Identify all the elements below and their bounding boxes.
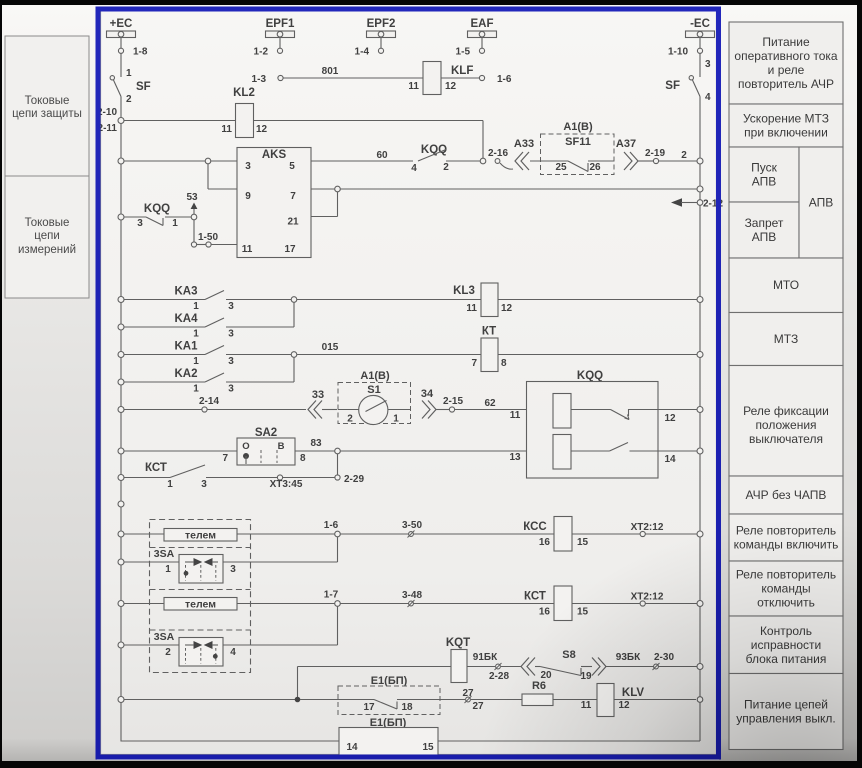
svg-text:КСТ: КСТ bbox=[145, 462, 167, 474]
svg-text:83: 83 bbox=[310, 438, 322, 449]
svg-text:11: 11 bbox=[510, 410, 521, 421]
svg-text:команды: команды bbox=[761, 582, 810, 596]
connector 33 bbox=[308, 389, 337, 419]
svg-text:EPF1: EPF1 bbox=[266, 18, 295, 30]
box телем 1 bbox=[164, 529, 237, 542]
svg-text:SF: SF bbox=[665, 80, 680, 92]
blue frame bbox=[98, 9, 719, 757]
block E1(БП) bottom bbox=[339, 717, 438, 755]
switch SA2 bbox=[222, 427, 306, 465]
node 3-48 bbox=[340, 590, 697, 607]
node AKS row right bus bbox=[697, 158, 703, 164]
arrow 53 up bbox=[186, 192, 198, 214]
wire E1 box to right bbox=[438, 703, 700, 742]
svg-text:блока питания: блока питания bbox=[746, 652, 827, 666]
contact KA1 bbox=[118, 341, 339, 368]
svg-text:измерений: измерений bbox=[18, 244, 76, 256]
node 1-10 bbox=[668, 38, 703, 58]
left bus wire bbox=[120, 97, 122, 742]
svg-text:-EC: -EC bbox=[690, 18, 710, 30]
wire bus to телем2 bbox=[118, 601, 164, 607]
wire телем1 to 1-6 bbox=[237, 533, 335, 535]
wire KL2 to corner bbox=[254, 120, 484, 122]
svg-text:12: 12 bbox=[501, 303, 513, 314]
svg-text:5: 5 bbox=[289, 161, 295, 172]
wire corner down to AKS row bbox=[482, 121, 484, 162]
svg-text:13: 13 bbox=[509, 452, 521, 463]
svg-text:SF: SF bbox=[136, 81, 151, 93]
node pin7 junction bbox=[335, 186, 341, 192]
svg-text:11: 11 bbox=[466, 303, 477, 314]
relay block KQQ bbox=[527, 370, 659, 478]
node 1-5 bbox=[456, 38, 485, 58]
svg-text:16: 16 bbox=[539, 607, 551, 618]
svg-text:выключателя: выключателя bbox=[749, 432, 823, 446]
wire KA1 to KT bbox=[297, 354, 482, 356]
annotation: Запрет АПВ bbox=[729, 202, 799, 258]
relay coil KT bbox=[471, 326, 507, 372]
node XT3:45 bbox=[270, 475, 335, 490]
node KQT bus bbox=[697, 664, 703, 670]
wire 83 to KQQ box bbox=[340, 450, 527, 452]
svg-text:7: 7 bbox=[290, 191, 296, 202]
svg-text:при включении: при включении bbox=[744, 126, 828, 140]
wire AKS pin5 out bbox=[311, 150, 413, 161]
wire bus corner to E1 box bbox=[121, 740, 339, 742]
svg-text:34: 34 bbox=[421, 388, 434, 400]
svg-text:8: 8 bbox=[300, 453, 306, 464]
svg-text:Токовые: Токовые bbox=[25, 95, 70, 107]
svg-text:7: 7 bbox=[471, 358, 477, 369]
svg-text:1: 1 bbox=[393, 414, 399, 425]
node 1-50 bbox=[191, 232, 237, 247]
annotation: АПВ bbox=[799, 147, 843, 258]
svg-text:19: 19 bbox=[580, 671, 592, 682]
relay coil KQT bbox=[446, 637, 498, 683]
svg-text:2: 2 bbox=[347, 414, 353, 425]
relay coil KQQ-1 bbox=[510, 394, 697, 429]
wire AKS pin7 out bbox=[311, 188, 697, 190]
svg-text:62: 62 bbox=[484, 398, 496, 409]
svg-text:Е1(БП): Е1(БП) bbox=[371, 675, 408, 687]
svg-text:R6: R6 bbox=[532, 680, 546, 692]
svg-text:3: 3 bbox=[230, 564, 236, 575]
contact KQQ upper bbox=[411, 144, 480, 174]
svg-text:2: 2 bbox=[165, 647, 171, 658]
annotation: АЧР без ЧАПВ bbox=[729, 476, 843, 514]
contact KQQ lower bbox=[118, 203, 191, 229]
svg-text:25: 25 bbox=[555, 162, 567, 173]
relay block AKS bbox=[237, 148, 311, 258]
node 2-15 bbox=[443, 396, 527, 412]
svg-text:Реле фиксации: Реле фиксации bbox=[743, 404, 829, 418]
svg-text:SF11: SF11 bbox=[565, 136, 591, 148]
svg-text:KQQ: KQQ bbox=[577, 370, 603, 382]
box телем 2 bbox=[164, 598, 237, 611]
svg-text:КСС: КСС bbox=[523, 521, 546, 533]
svg-text:Реле повторитель: Реле повторитель bbox=[736, 568, 836, 582]
contact КСТ bbox=[118, 462, 277, 490]
relay coil KL3 bbox=[453, 283, 512, 317]
annotation: Ускорение МТЗ при включении bbox=[729, 104, 843, 147]
svg-text:3: 3 bbox=[228, 384, 234, 395]
wire bus to 2-14 bbox=[118, 407, 202, 413]
svg-text:18: 18 bbox=[401, 702, 413, 713]
svg-text:801: 801 bbox=[322, 66, 339, 77]
svg-text:15: 15 bbox=[577, 537, 589, 548]
svg-text:МТЗ: МТЗ bbox=[774, 332, 798, 346]
svg-text:91БК: 91БК bbox=[473, 652, 498, 663]
svg-text:11: 11 bbox=[581, 700, 592, 711]
svg-text:оперативного тока: оперативного тока bbox=[734, 49, 837, 63]
svg-text:A33: A33 bbox=[514, 138, 534, 150]
node 2-29 bbox=[335, 474, 365, 485]
svg-text:60: 60 bbox=[376, 150, 388, 161]
wire 3SA2 to 1-7 bbox=[223, 606, 338, 645]
arrow 2-12 bbox=[671, 198, 723, 209]
block A1(B) SF11 bbox=[530, 121, 614, 175]
svg-text:2-11: 2-11 bbox=[98, 123, 118, 134]
node 27 bbox=[440, 688, 522, 712]
node junction x483 bbox=[480, 158, 486, 164]
svg-text:KQT: KQT bbox=[446, 637, 470, 649]
svg-text:отключить: отключить bbox=[757, 596, 815, 610]
svg-text:EAF: EAF bbox=[471, 18, 494, 30]
svg-text:цепи: цепи bbox=[34, 230, 60, 242]
label 2-10 bbox=[97, 107, 117, 118]
svg-text:АПВ: АПВ bbox=[752, 230, 777, 244]
annotation: Питание цепей управления выкл. bbox=[729, 674, 843, 750]
svg-text:Запрет: Запрет bbox=[745, 216, 784, 230]
wire SA2 to 83 bbox=[295, 438, 335, 451]
svg-text:Питание: Питание bbox=[762, 35, 810, 49]
breaker SF right bbox=[665, 53, 711, 103]
svg-text:Реле повторитель: Реле повторитель bbox=[736, 524, 836, 538]
wire 3SA1 to 1-6 bbox=[223, 537, 338, 562]
svg-text:12: 12 bbox=[445, 81, 457, 92]
contact S8 bbox=[535, 649, 592, 682]
svg-text:1: 1 bbox=[165, 564, 171, 575]
right bus wire bbox=[699, 97, 701, 701]
terminal EPF1 bbox=[266, 18, 295, 38]
svg-text:KA3: KA3 bbox=[174, 286, 197, 298]
svg-text:2: 2 bbox=[443, 162, 449, 173]
wire KA4 up to KA3 bbox=[293, 303, 295, 328]
node KQQ row2 bus bbox=[697, 448, 703, 454]
node 2-19 bbox=[645, 148, 697, 164]
relay coil KLV bbox=[597, 684, 696, 717]
svg-text:Токовые: Токовые bbox=[25, 217, 70, 229]
svg-text:1-6: 1-6 bbox=[497, 74, 512, 85]
svg-text:1-8: 1-8 bbox=[133, 47, 148, 58]
terminal +EC bbox=[107, 18, 136, 38]
wire bus to E1 bbox=[118, 697, 295, 703]
svg-text:Питание цепей: Питание цепей bbox=[744, 698, 828, 712]
svg-text:33: 33 bbox=[312, 389, 324, 401]
annotation: Реле повторитель команды включить bbox=[729, 514, 843, 561]
svg-text:S8: S8 bbox=[562, 649, 575, 661]
svg-text:2-30: 2-30 bbox=[654, 652, 674, 663]
svg-text:53: 53 bbox=[186, 192, 198, 203]
relay coil КСТ bbox=[524, 586, 589, 621]
svg-text:МТО: МТО bbox=[773, 278, 799, 292]
svg-text:телем: телем bbox=[185, 530, 216, 542]
svg-text:KA1: KA1 bbox=[174, 341, 198, 353]
svg-text:11: 11 bbox=[221, 124, 232, 135]
node 2-14 bbox=[199, 396, 306, 412]
svg-text:3: 3 bbox=[228, 356, 234, 367]
svg-text:1-4: 1-4 bbox=[355, 47, 370, 58]
svg-text:Пуск: Пуск bbox=[751, 161, 777, 175]
node 83 junction bbox=[335, 448, 341, 454]
svg-text:1: 1 bbox=[193, 301, 199, 312]
svg-text:цепи защиты: цепи защиты bbox=[12, 108, 82, 120]
svg-text:15: 15 bbox=[577, 607, 589, 618]
svg-text:3: 3 bbox=[137, 218, 143, 229]
block E1(БП) dashed bbox=[338, 675, 440, 715]
svg-text:B: B bbox=[278, 441, 285, 452]
resistor R6 bbox=[522, 680, 597, 711]
svg-text:16: 16 bbox=[539, 537, 551, 548]
svg-text:1-6: 1-6 bbox=[324, 520, 339, 531]
relay coil КСС bbox=[523, 517, 588, 552]
svg-text:3-48: 3-48 bbox=[402, 590, 422, 601]
wire x194 down bbox=[193, 220, 195, 243]
svg-text:EPF2: EPF2 bbox=[367, 18, 396, 30]
connector S8 left bbox=[501, 658, 535, 676]
node 2-16 bbox=[488, 148, 513, 169]
svg-text:KL3: KL3 bbox=[453, 285, 475, 297]
svg-text:S1: S1 bbox=[367, 384, 380, 396]
wire bus to телем1 bbox=[118, 531, 164, 537]
svg-text:управления выкл.: управления выкл. bbox=[736, 712, 836, 726]
annotation: Пуск АПВ bbox=[729, 147, 799, 202]
lamp S1 bbox=[338, 370, 411, 425]
svg-text:КТ: КТ bbox=[482, 326, 496, 338]
wire KA2 up to KA1 bbox=[293, 357, 295, 382]
contact KA3 bbox=[118, 286, 294, 313]
svg-text:3: 3 bbox=[228, 301, 234, 312]
annotation: Питание оперативного тока и реле повторитель АЧР bbox=[729, 22, 843, 104]
wire KLF to 1-6 bbox=[441, 77, 479, 79]
svg-text:A1(B): A1(B) bbox=[360, 370, 390, 382]
svg-text:3-50: 3-50 bbox=[402, 520, 422, 531]
svg-text:3: 3 bbox=[228, 329, 234, 340]
svg-text:Ускорение МТЗ: Ускорение МТЗ bbox=[743, 112, 829, 126]
svg-text:4: 4 bbox=[705, 92, 711, 103]
block 3SA 1 bbox=[154, 548, 236, 583]
svg-text:1-7: 1-7 bbox=[324, 590, 339, 601]
connector A37 bbox=[616, 138, 653, 170]
node 2-28 bbox=[489, 663, 509, 682]
contact KA2 bbox=[118, 368, 294, 395]
svg-text:1-2: 1-2 bbox=[254, 47, 269, 58]
svg-text:3: 3 bbox=[245, 161, 251, 172]
svg-text:SA2: SA2 bbox=[255, 427, 277, 439]
wire branch to AKS pin9 bbox=[208, 164, 237, 190]
svg-text:14: 14 bbox=[664, 454, 676, 465]
svg-text:12: 12 bbox=[618, 700, 630, 711]
svg-text:АПВ: АПВ bbox=[752, 175, 777, 189]
svg-text:2-15: 2-15 bbox=[443, 396, 463, 407]
svg-text:2-14: 2-14 bbox=[199, 396, 219, 407]
connector S8 right bbox=[581, 658, 606, 676]
terminal EPF2 bbox=[367, 18, 396, 38]
annotation: Реле повторитель команды отключить bbox=[729, 561, 843, 616]
annotation box: Токовые цепи защиты bbox=[5, 36, 89, 176]
wire bus to SA2 bbox=[118, 448, 237, 454]
svg-text:2: 2 bbox=[126, 94, 132, 105]
svg-text:1: 1 bbox=[193, 384, 199, 395]
svg-text:A37: A37 bbox=[616, 138, 636, 150]
node 93БК bbox=[605, 652, 697, 670]
svg-text:положения: положения bbox=[755, 418, 816, 432]
node AKS pin3 branch bbox=[205, 158, 211, 164]
node KLV bus end bbox=[697, 697, 703, 703]
relay coil KLF bbox=[408, 62, 473, 95]
node XT2:12 upper bbox=[631, 522, 664, 537]
wire телем2 to 1-7 bbox=[237, 603, 335, 605]
svg-text:A1(B): A1(B) bbox=[563, 121, 593, 133]
wire bus to 3SA2 bbox=[118, 642, 179, 648]
svg-text:2-19: 2-19 bbox=[645, 148, 665, 159]
svg-text:KA4: KA4 bbox=[174, 313, 198, 325]
node 1-3 bbox=[252, 74, 284, 85]
node bus y504 bbox=[118, 501, 124, 507]
wire 83 down to 2-29 bbox=[337, 454, 339, 475]
node 1-4 bbox=[355, 38, 384, 58]
node XT2:12 lower bbox=[631, 592, 664, 607]
svg-text:2-28: 2-28 bbox=[489, 671, 509, 682]
schematic paper bbox=[97, 6, 719, 760]
svg-text:+EC: +EC bbox=[110, 18, 133, 30]
wire KT to bus bbox=[498, 352, 703, 358]
svg-text:3SA: 3SA bbox=[154, 631, 175, 643]
svg-text:1-3: 1-3 bbox=[252, 74, 267, 85]
svg-text:2-16: 2-16 bbox=[488, 148, 508, 159]
svg-text:27: 27 bbox=[472, 701, 484, 712]
svg-text:1: 1 bbox=[167, 479, 173, 490]
wire KA3 to KL3 bbox=[297, 299, 482, 301]
wire E1dot up to KQT bbox=[298, 667, 452, 699]
block телем dashed frame bbox=[150, 520, 251, 673]
svg-text:21: 21 bbox=[287, 217, 299, 228]
svg-text:4: 4 bbox=[411, 163, 417, 174]
node 3-50 bbox=[340, 520, 697, 538]
node x194 junction bbox=[191, 214, 197, 220]
schematic frame bbox=[101, 9, 717, 755]
svg-text:11: 11 bbox=[408, 81, 419, 92]
annotation box: Токовые цепи измерений bbox=[5, 176, 89, 298]
annotation: МТЗ bbox=[729, 313, 843, 366]
svg-text:Контроль: Контроль bbox=[760, 624, 812, 638]
svg-text:7: 7 bbox=[222, 453, 228, 464]
svg-text:015: 015 bbox=[322, 342, 339, 353]
svg-text:17: 17 bbox=[363, 702, 375, 713]
node pin7 row right bus bbox=[697, 186, 703, 192]
svg-text:26: 26 bbox=[589, 162, 601, 173]
annotation: Реле фиксации положения выключателя bbox=[729, 366, 843, 477]
node KA3 junction bbox=[291, 297, 297, 303]
wire bus to 3SA1 bbox=[118, 559, 179, 565]
annotation: Контроль исправности блока питания bbox=[729, 616, 843, 674]
annotation: МТО bbox=[729, 258, 843, 313]
svg-text:11: 11 bbox=[242, 244, 253, 255]
node KA1 junction bbox=[291, 352, 297, 358]
node 1-7 junction bbox=[324, 590, 341, 607]
wire bus to KL2 bbox=[118, 118, 236, 124]
svg-text:XТ3:45: XТ3:45 bbox=[270, 479, 303, 490]
svg-text:XT2:12: XT2:12 bbox=[631, 522, 664, 533]
svg-text:14: 14 bbox=[346, 742, 358, 753]
svg-text:12: 12 bbox=[664, 413, 676, 424]
svg-text:АПВ: АПВ bbox=[809, 196, 834, 210]
svg-text:1: 1 bbox=[193, 329, 199, 340]
svg-text:KQQ: KQQ bbox=[144, 203, 170, 215]
junction dot E1 bbox=[295, 697, 338, 703]
svg-text:O: O bbox=[242, 441, 249, 452]
svg-text:1-50: 1-50 bbox=[198, 232, 218, 243]
svg-text:XT2:12: XT2:12 bbox=[631, 592, 664, 603]
svg-text:телем: телем bbox=[185, 599, 216, 611]
wire KL3 to bus bbox=[498, 297, 703, 303]
svg-text:и реле: и реле bbox=[768, 63, 805, 77]
svg-text:1-5: 1-5 bbox=[456, 47, 471, 58]
svg-text:1-10: 1-10 bbox=[668, 47, 688, 58]
svg-text:2-29: 2-29 bbox=[344, 474, 364, 485]
node КСС bus bbox=[697, 531, 703, 537]
node 1-8 bbox=[118, 38, 147, 58]
terminal -EC bbox=[686, 18, 715, 38]
svg-text:15: 15 bbox=[422, 742, 434, 753]
wire 801 bbox=[283, 66, 423, 78]
svg-text:исправности: исправности bbox=[751, 638, 821, 652]
node 1-6 bbox=[479, 74, 511, 85]
svg-text:1: 1 bbox=[126, 68, 132, 79]
svg-text:КСТ: КСТ bbox=[524, 591, 546, 603]
svg-text:3: 3 bbox=[705, 59, 711, 70]
svg-text:KLF: KLF bbox=[451, 65, 473, 77]
contact KA4 bbox=[118, 313, 294, 340]
svg-text:АЧР без ЧАПВ: АЧР без ЧАПВ bbox=[746, 488, 827, 502]
terminal EAF bbox=[468, 18, 497, 38]
svg-text:3: 3 bbox=[201, 479, 207, 490]
breaker SF left bbox=[110, 53, 151, 105]
svg-text:93БК: 93БК bbox=[616, 652, 641, 663]
svg-text:9: 9 bbox=[245, 191, 251, 202]
svg-text:KLV: KLV bbox=[622, 687, 644, 699]
node 1-6 junction bbox=[324, 520, 341, 537]
svg-text:3SA: 3SA bbox=[154, 548, 175, 560]
wire AKS pin21 out bbox=[311, 192, 338, 217]
relay coil KL2 bbox=[221, 87, 267, 138]
node 1-2 bbox=[254, 38, 283, 58]
label 2-11 bbox=[98, 123, 118, 134]
svg-text:17: 17 bbox=[284, 244, 296, 255]
svg-text:команды включить: команды включить bbox=[734, 538, 839, 552]
svg-text:AKS: AKS bbox=[262, 149, 287, 161]
svg-text:12: 12 bbox=[256, 124, 268, 135]
relay coil KQQ-2 bbox=[509, 435, 697, 470]
wire bus to AKS pin3 bbox=[118, 158, 237, 164]
node KQQ row1 bus bbox=[697, 407, 703, 413]
node КСТ bus bbox=[697, 601, 703, 607]
svg-text:2: 2 bbox=[681, 150, 687, 161]
svg-text:KL2: KL2 bbox=[233, 87, 255, 99]
svg-text:1: 1 bbox=[193, 356, 199, 367]
svg-text:KA2: KA2 bbox=[174, 368, 197, 380]
block 3SA 2 bbox=[154, 631, 236, 666]
